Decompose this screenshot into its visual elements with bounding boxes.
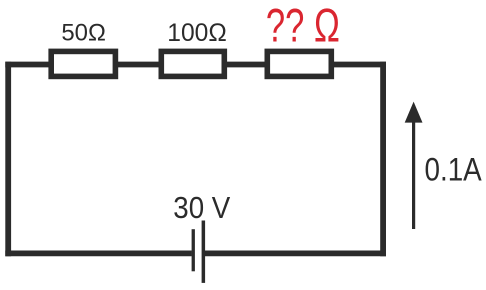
wire: right vertical side xyxy=(380,62,386,257)
battery V1: short plate (left) xyxy=(192,229,195,271)
resistor R2 (100 ohm) xyxy=(161,51,224,76)
wire: bottom right segment (battery to corner) xyxy=(205,250,386,256)
resistor R3 (unknown, ?? ohm) xyxy=(267,51,331,76)
wire: top horizontal run xyxy=(5,62,386,68)
svg-text:30 V: 30 V xyxy=(173,190,230,225)
current arrow (0.1 A, pointing up) : shaft xyxy=(412,116,415,229)
wire: bottom left segment (to battery) xyxy=(5,250,192,256)
resistor R1 (50 ohm) xyxy=(51,51,115,76)
svg-text:0.1A: 0.1A xyxy=(425,152,482,188)
wire: left vertical side xyxy=(5,62,11,257)
svg-text:?? Ω: ?? Ω xyxy=(266,0,340,52)
current arrow head xyxy=(405,102,423,123)
battery V1: long plate (right) xyxy=(202,221,206,283)
svg-text:100Ω: 100Ω xyxy=(167,19,227,47)
svg-text:50Ω: 50Ω xyxy=(61,20,106,47)
